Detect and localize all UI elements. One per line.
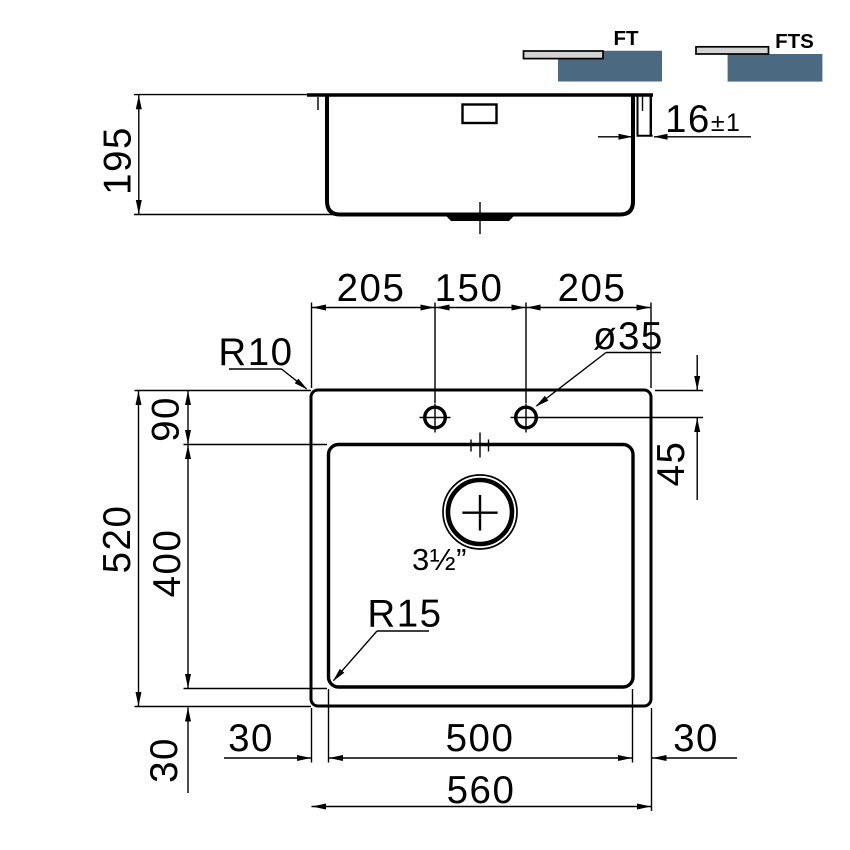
svg-text:500: 500 xyxy=(446,717,515,760)
svg-text:30: 30 xyxy=(143,737,186,783)
svg-text:400: 400 xyxy=(146,529,189,598)
560 dim line xyxy=(312,806,652,808)
tap hole right xyxy=(511,404,542,433)
mounting clip tick xyxy=(317,97,319,110)
top view sink outline R10 xyxy=(311,390,651,706)
svg-text:R10: R10 xyxy=(218,331,293,374)
svg-text:30: 30 xyxy=(228,717,274,760)
svg-text:45: 45 xyxy=(650,441,693,487)
svg-text:R15: R15 xyxy=(367,593,442,636)
svg-text:205: 205 xyxy=(558,267,627,310)
90 dimension line xyxy=(187,391,189,445)
R10 leader xyxy=(229,369,307,389)
left extension lines xyxy=(135,391,328,707)
FT sink rim bar xyxy=(524,51,604,59)
FT counter block xyxy=(558,51,662,82)
svg-text:FT: FT xyxy=(613,27,639,50)
svg-text:195: 195 xyxy=(97,126,140,195)
drain circle xyxy=(443,475,517,549)
side view rim top line xyxy=(307,93,653,96)
bottom extension lines xyxy=(312,689,652,811)
drain boss xyxy=(445,214,516,221)
svg-text:FTS: FTS xyxy=(775,30,814,53)
side view bowl outline xyxy=(327,96,633,215)
svg-text:205: 205 xyxy=(337,267,406,310)
svg-text:30: 30 xyxy=(673,717,719,760)
top dim extension lines xyxy=(312,303,652,404)
ø35 leader xyxy=(537,353,662,407)
30 left dim line xyxy=(224,757,311,759)
FTS counter block xyxy=(728,54,823,82)
45 dim extension lines xyxy=(541,391,703,418)
top dim line xyxy=(312,307,652,309)
30 vertical dimension arrow xyxy=(187,708,189,794)
R15 leader xyxy=(334,631,430,681)
svg-text:560: 560 xyxy=(447,769,516,812)
svg-text:150: 150 xyxy=(435,267,504,310)
520 dimension line xyxy=(138,391,140,707)
flange edge profile xyxy=(637,95,653,136)
svg-text:ø35: ø35 xyxy=(593,315,664,358)
tap hole left xyxy=(420,404,451,433)
overflow hole xyxy=(463,105,497,124)
drain centerline xyxy=(479,202,481,234)
45 dim upper arrow xyxy=(696,355,698,390)
svg-text:520: 520 xyxy=(96,505,139,574)
side view: 195 dimension top extension line xyxy=(134,94,308,96)
500 dim line xyxy=(329,757,633,759)
svg-text:90: 90 xyxy=(145,396,188,442)
45 dim lower arrow xyxy=(696,418,698,500)
svg-text:3½”: 3½” xyxy=(412,542,467,577)
30 right dim line xyxy=(652,757,737,759)
FTS sink rim bar xyxy=(696,47,769,54)
bowl top centerline marks xyxy=(471,433,489,458)
16±1 dimension arrows xyxy=(598,136,751,138)
side view 195 bottom extension line xyxy=(134,214,333,216)
195 dimension line xyxy=(138,95,140,215)
top view bowl outline R15 xyxy=(329,445,634,688)
400 dimension line xyxy=(187,445,189,689)
